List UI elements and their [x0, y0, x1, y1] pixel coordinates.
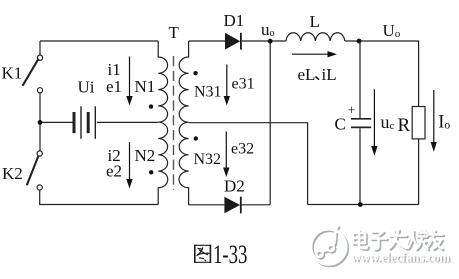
wire secondary bottom to D2	[189, 204, 225, 206]
phase dot N1	[149, 104, 153, 108]
svg-text:K2: K2	[2, 164, 23, 183]
svg-text:L: L	[310, 12, 320, 31]
resistor R body	[412, 107, 425, 139]
wire top-left primary	[40, 40, 158, 42]
arrow i1 e1	[126, 57, 132, 106]
label eL iL	[298, 65, 337, 84]
wire C bottom	[359, 128, 361, 204]
capacitor C plates	[351, 119, 371, 128]
transformer primary winding N1 N2	[158, 41, 168, 205]
svg-text:1-33: 1-33	[213, 240, 247, 270]
svg-text:T: T	[169, 23, 180, 42]
phase dot N2	[149, 170, 153, 174]
junction node uo	[268, 39, 273, 44]
svg-text:N2: N2	[135, 146, 156, 165]
wire secondary top to D1	[189, 40, 225, 42]
caption figure 1-33 chinese tu character	[194, 245, 211, 263]
svg-text:uo: uo	[261, 20, 275, 39]
svg-text:e2: e2	[106, 161, 122, 180]
wire D1 to node uo	[242, 40, 286, 42]
wire L to Uo corner and down to R	[345, 41, 419, 107]
arrow uc	[371, 89, 377, 156]
wire R bottom	[418, 139, 420, 205]
diode D1	[225, 33, 241, 50]
svg-text:+: +	[348, 104, 356, 119]
svg-text:uc: uc	[381, 112, 395, 132]
transformer core	[173, 56, 175, 190]
svg-text:N31: N31	[194, 83, 222, 100]
wire node uo down to D2 rail	[269, 41, 271, 205]
svg-text:iL: iL	[322, 65, 337, 84]
wire battery to primary centre tap	[97, 121, 158, 123]
switch K1	[23, 55, 43, 93]
wire C branch top	[359, 41, 361, 118]
svg-text:e1: e1	[106, 77, 122, 96]
wire K1 to node	[39, 93, 41, 123]
svg-text:R: R	[398, 115, 411, 136]
arrow e32	[223, 132, 229, 178]
battery Ui	[74, 106, 95, 139]
svg-text:C: C	[335, 115, 346, 134]
transformer secondary winding N31 N32	[179, 41, 189, 205]
svg-text:e31: e31	[232, 75, 255, 92]
svg-text:eL: eL	[298, 65, 316, 84]
arrow e31	[224, 65, 230, 106]
svg-text:N32: N32	[194, 151, 222, 168]
wire K1 drop	[39, 41, 41, 55]
svg-text:e32: e32	[231, 140, 254, 157]
svg-text:D2: D2	[224, 177, 245, 196]
svg-text:Io: Io	[438, 112, 450, 132]
wire node to K2	[39, 122, 41, 151]
svg-text:www.elecfans.com: www.elecfans.com	[351, 250, 450, 264]
arrow i2 e2	[126, 142, 132, 189]
svg-text:K1: K1	[2, 64, 23, 83]
inductor L	[286, 33, 345, 41]
svg-text:Ui: Ui	[78, 78, 95, 97]
junction node C bottom	[358, 202, 363, 207]
wire centre tap to output return	[189, 123, 308, 205]
junction node battery/K	[38, 120, 43, 125]
wire D2 to vertical	[242, 204, 271, 206]
arrow eL iL	[292, 51, 337, 57]
svg-text:N1: N1	[135, 77, 156, 96]
phase dot N31	[193, 71, 197, 75]
bottom output rail	[308, 204, 419, 206]
svg-text:Uo: Uo	[383, 21, 401, 40]
junction node C top	[357, 39, 362, 44]
diode D2	[224, 197, 240, 214]
wire node to battery	[40, 121, 73, 123]
arrow Io	[431, 90, 437, 152]
wire K2 to bottom rail	[40, 190, 159, 204]
watermark logo and text	[311, 226, 452, 266]
svg-text:D1: D1	[224, 11, 245, 30]
switch K2	[27, 151, 43, 190]
phase dot N32	[194, 136, 198, 140]
